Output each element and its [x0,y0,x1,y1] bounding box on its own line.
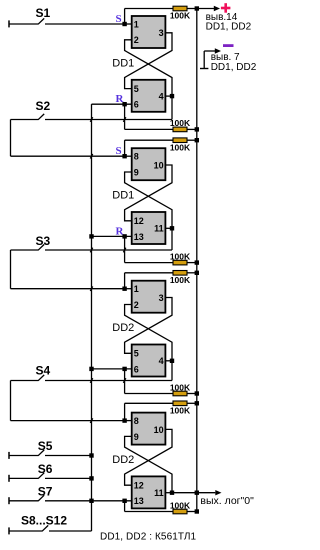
junction S7 / bus [89,499,93,503]
wire: pin 2 cross-coupling (to output 4) [125,305,172,361]
logic gate DD1.1 (pins 1,2,3) [132,16,166,48]
wire: pin 9 cross-coupling (to output 11) [125,172,172,228]
wire: pin 10 output cross-coupling (to input 12) [125,165,172,221]
node output junction latch 1 (pin 4) [170,94,174,98]
logic gate DD2.1 (pins 1,2,3) [132,281,166,313]
svg-text:11: 11 [154,224,164,234]
switch S1 [9,6,125,28]
wire: pin 6 R input [92,103,132,105]
output node: вых. лог"0" [172,490,254,507]
wire: output 11 down to S3 row [171,228,173,250]
svg-text:S: S [116,145,122,157]
switch S8...S12 [9,514,92,535]
wire: output 4 down to S2 row [171,96,173,119]
svg-text:5: 5 [134,84,139,94]
switch S6 [9,462,92,482]
wire: pin 3 output cross-coupling (to input 5) [125,33,172,89]
power - supply: выв. 7 DD1, DD2 [200,44,257,73]
svg-text:100K: 100K [170,382,191,392]
node S input junction latch 4 (pin 8) [122,418,126,422]
svg-text:13: 13 [134,232,144,242]
logic gate DD2.2 (pins 5,6,4) [132,345,166,377]
resistor 100K (pull-up, S input DD1.1) [173,6,187,11]
svg-text:10: 10 [154,425,164,435]
logic gate DD1.3 (pins 8,9,10) [132,148,166,180]
svg-text:S6: S6 [38,462,53,476]
node S input junction latch 1 (pin 1) [122,22,126,26]
junction: bus to R input latch 3 [89,367,93,371]
svg-text:S3: S3 [36,234,51,248]
svg-text:100K: 100K [170,500,191,510]
wire: riser S pull-up (latch 3) [125,273,197,289]
logic gate DD1.2 (pins 5,6,4) [132,80,166,112]
junction S5 to bus [89,453,93,457]
svg-text:10: 10 [154,160,164,170]
svg-text:11: 11 [154,488,164,498]
wire: pin 11 output stub [165,227,172,229]
switch S4 [11,364,173,421]
wire: pin 2 cross-coupling (to output 4) [125,40,172,96]
svg-text:DD1, DD2: DD1, DD2 [211,62,257,73]
junction on +supply rail [195,6,199,10]
wire: riser R pull-up (latch 1) [125,104,197,129]
node S input junction latch 2 (pin 8) [122,154,126,158]
svg-text:100K: 100K [170,118,191,128]
svg-text:6: 6 [134,364,139,374]
wire: riser S pull-up (latch 4) [125,403,197,420]
wire: riser S pull-up (latch 2) [125,140,197,156]
junction on + rail [195,127,199,131]
wire: pin 3 output cross-coupling (to input 5) [125,298,172,354]
wire: pin 8 stub [125,155,132,157]
svg-text:3: 3 [159,293,164,303]
svg-text:S4: S4 [36,364,51,378]
svg-text:DD2: DD2 [112,322,134,334]
svg-text:9: 9 [134,432,139,442]
wire: S1 pull-up riser and top rail to resistor [125,9,197,25]
node S input junction latch 3 (pin 1) [122,287,126,291]
resistor 100K (pull-up, R input latch 1) [173,127,187,132]
junction output wire / + rail [195,491,199,495]
svg-text:3: 3 [159,28,164,38]
junction on + rail [195,271,199,275]
node R input junction latch 4 (pin 13) [122,499,126,503]
wire: pin 1 stub [125,288,132,290]
resistor 100K (pull-up, S input latch 3) [173,271,187,276]
svg-text:DD2: DD2 [112,454,134,466]
junction: bus to R input latch 2 [89,234,93,238]
switch S7 (R input latch 4, pin 13) [9,484,132,504]
svg-text:100K: 100K [170,275,191,285]
wire: pin 11 output stub [165,492,172,494]
svg-text:DD1, DD2: DD1, DD2 [206,22,252,33]
switch S2 [11,99,173,156]
resistor 100K (pull-up, R input latch 2) [173,260,187,265]
switch S3 [11,234,173,289]
svg-text:6: 6 [134,100,139,110]
wire: pin 6 R input [92,368,132,370]
node output junction latch 2 (pin 11) [170,226,174,230]
logic gate DD1.4 (pins 12,13,11) [132,212,166,244]
svg-text:DD1: DD1 [112,58,134,70]
svg-text:вых. лог"0": вых. лог"0" [200,495,254,507]
svg-text:DD1: DD1 [112,190,134,202]
svg-text:100K: 100K [170,251,191,261]
svg-text:S2: S2 [36,99,51,113]
svg-text:12: 12 [134,481,144,491]
wire: + supply vertical rail [196,9,198,512]
logic gate DD2.3 (pins 8,9,10) [132,413,166,445]
svg-text:2: 2 [134,300,139,310]
svg-text:1: 1 [134,284,139,294]
junction on + rail [195,138,199,142]
svg-text:S8...S12: S8...S12 [21,514,67,528]
resistor 100K (output pull-up) [173,509,187,514]
svg-text:100K: 100K [170,11,191,21]
wire: pin 10 output cross-coupling (to input 12) [125,429,172,485]
junction on + rail [195,260,199,264]
svg-text:5: 5 [134,349,139,359]
wire: pin 4 output stub [165,95,172,97]
logic gate DD2.4 (pins 12,13,11) [132,476,166,508]
resistor 100K (pull-up, R input latch 3) [173,391,187,396]
node R input junction latch 3 (pin 6) [122,367,126,371]
junction on + rail [195,391,199,395]
svg-text:2: 2 [134,35,139,45]
wire: switch common bus vertical [91,104,93,531]
node R input junction latch 2 (pin 13) [122,234,126,238]
node output junction latch 4 (pin 11) [170,491,174,495]
wire: output 4 down to S4 row [171,361,173,381]
svg-text:13: 13 [134,496,144,506]
junction on + rail (bottom) [195,509,199,513]
svg-text:1: 1 [134,19,139,29]
junction S6 to bus [89,476,93,480]
power + supply: выв.14 DD1, DD2 [197,3,252,32]
resistor 100K (pull-up, S input latch 2) [173,138,187,143]
svg-text:S5: S5 [38,439,53,453]
svg-text:S7: S7 [38,484,53,498]
svg-text:4: 4 [159,356,164,366]
switch S5 [9,439,92,459]
wire jog marks at crossings [90,117,126,423]
wire: pin 13 R input [92,235,132,237]
wire: riser R pull-up (latch 3) [125,369,197,394]
svg-text:S: S [116,13,122,25]
svg-text:DD1, DD2 : К561ТЛ1: DD1, DD2 : К561ТЛ1 [100,532,197,543]
svg-text:12: 12 [134,216,144,226]
wire: R4 riser to output pull-up row [125,501,197,512]
wire: pin 9 cross-coupling (to output 11) [125,436,172,492]
wire: pin 8 stub [125,420,132,422]
wire: pin 4 output stub [165,360,172,362]
node output junction latch 3 (pin 4) [170,359,174,363]
wire: riser R pull-up (latch 2) [125,236,197,262]
svg-text:S1: S1 [36,6,51,20]
svg-text:4: 4 [159,92,164,102]
resistor 100K (pull-up, S input latch 4) [173,401,187,406]
svg-text:9: 9 [134,167,139,177]
wire: pin 1 stub [125,23,132,25]
svg-text:8: 8 [134,152,139,162]
node R input junction latch 1 (pin 6) [122,102,126,106]
junction on + rail [195,401,199,405]
svg-text:8: 8 [134,416,139,426]
svg-text:100K: 100K [170,406,191,416]
svg-text:100K: 100K [170,142,191,152]
